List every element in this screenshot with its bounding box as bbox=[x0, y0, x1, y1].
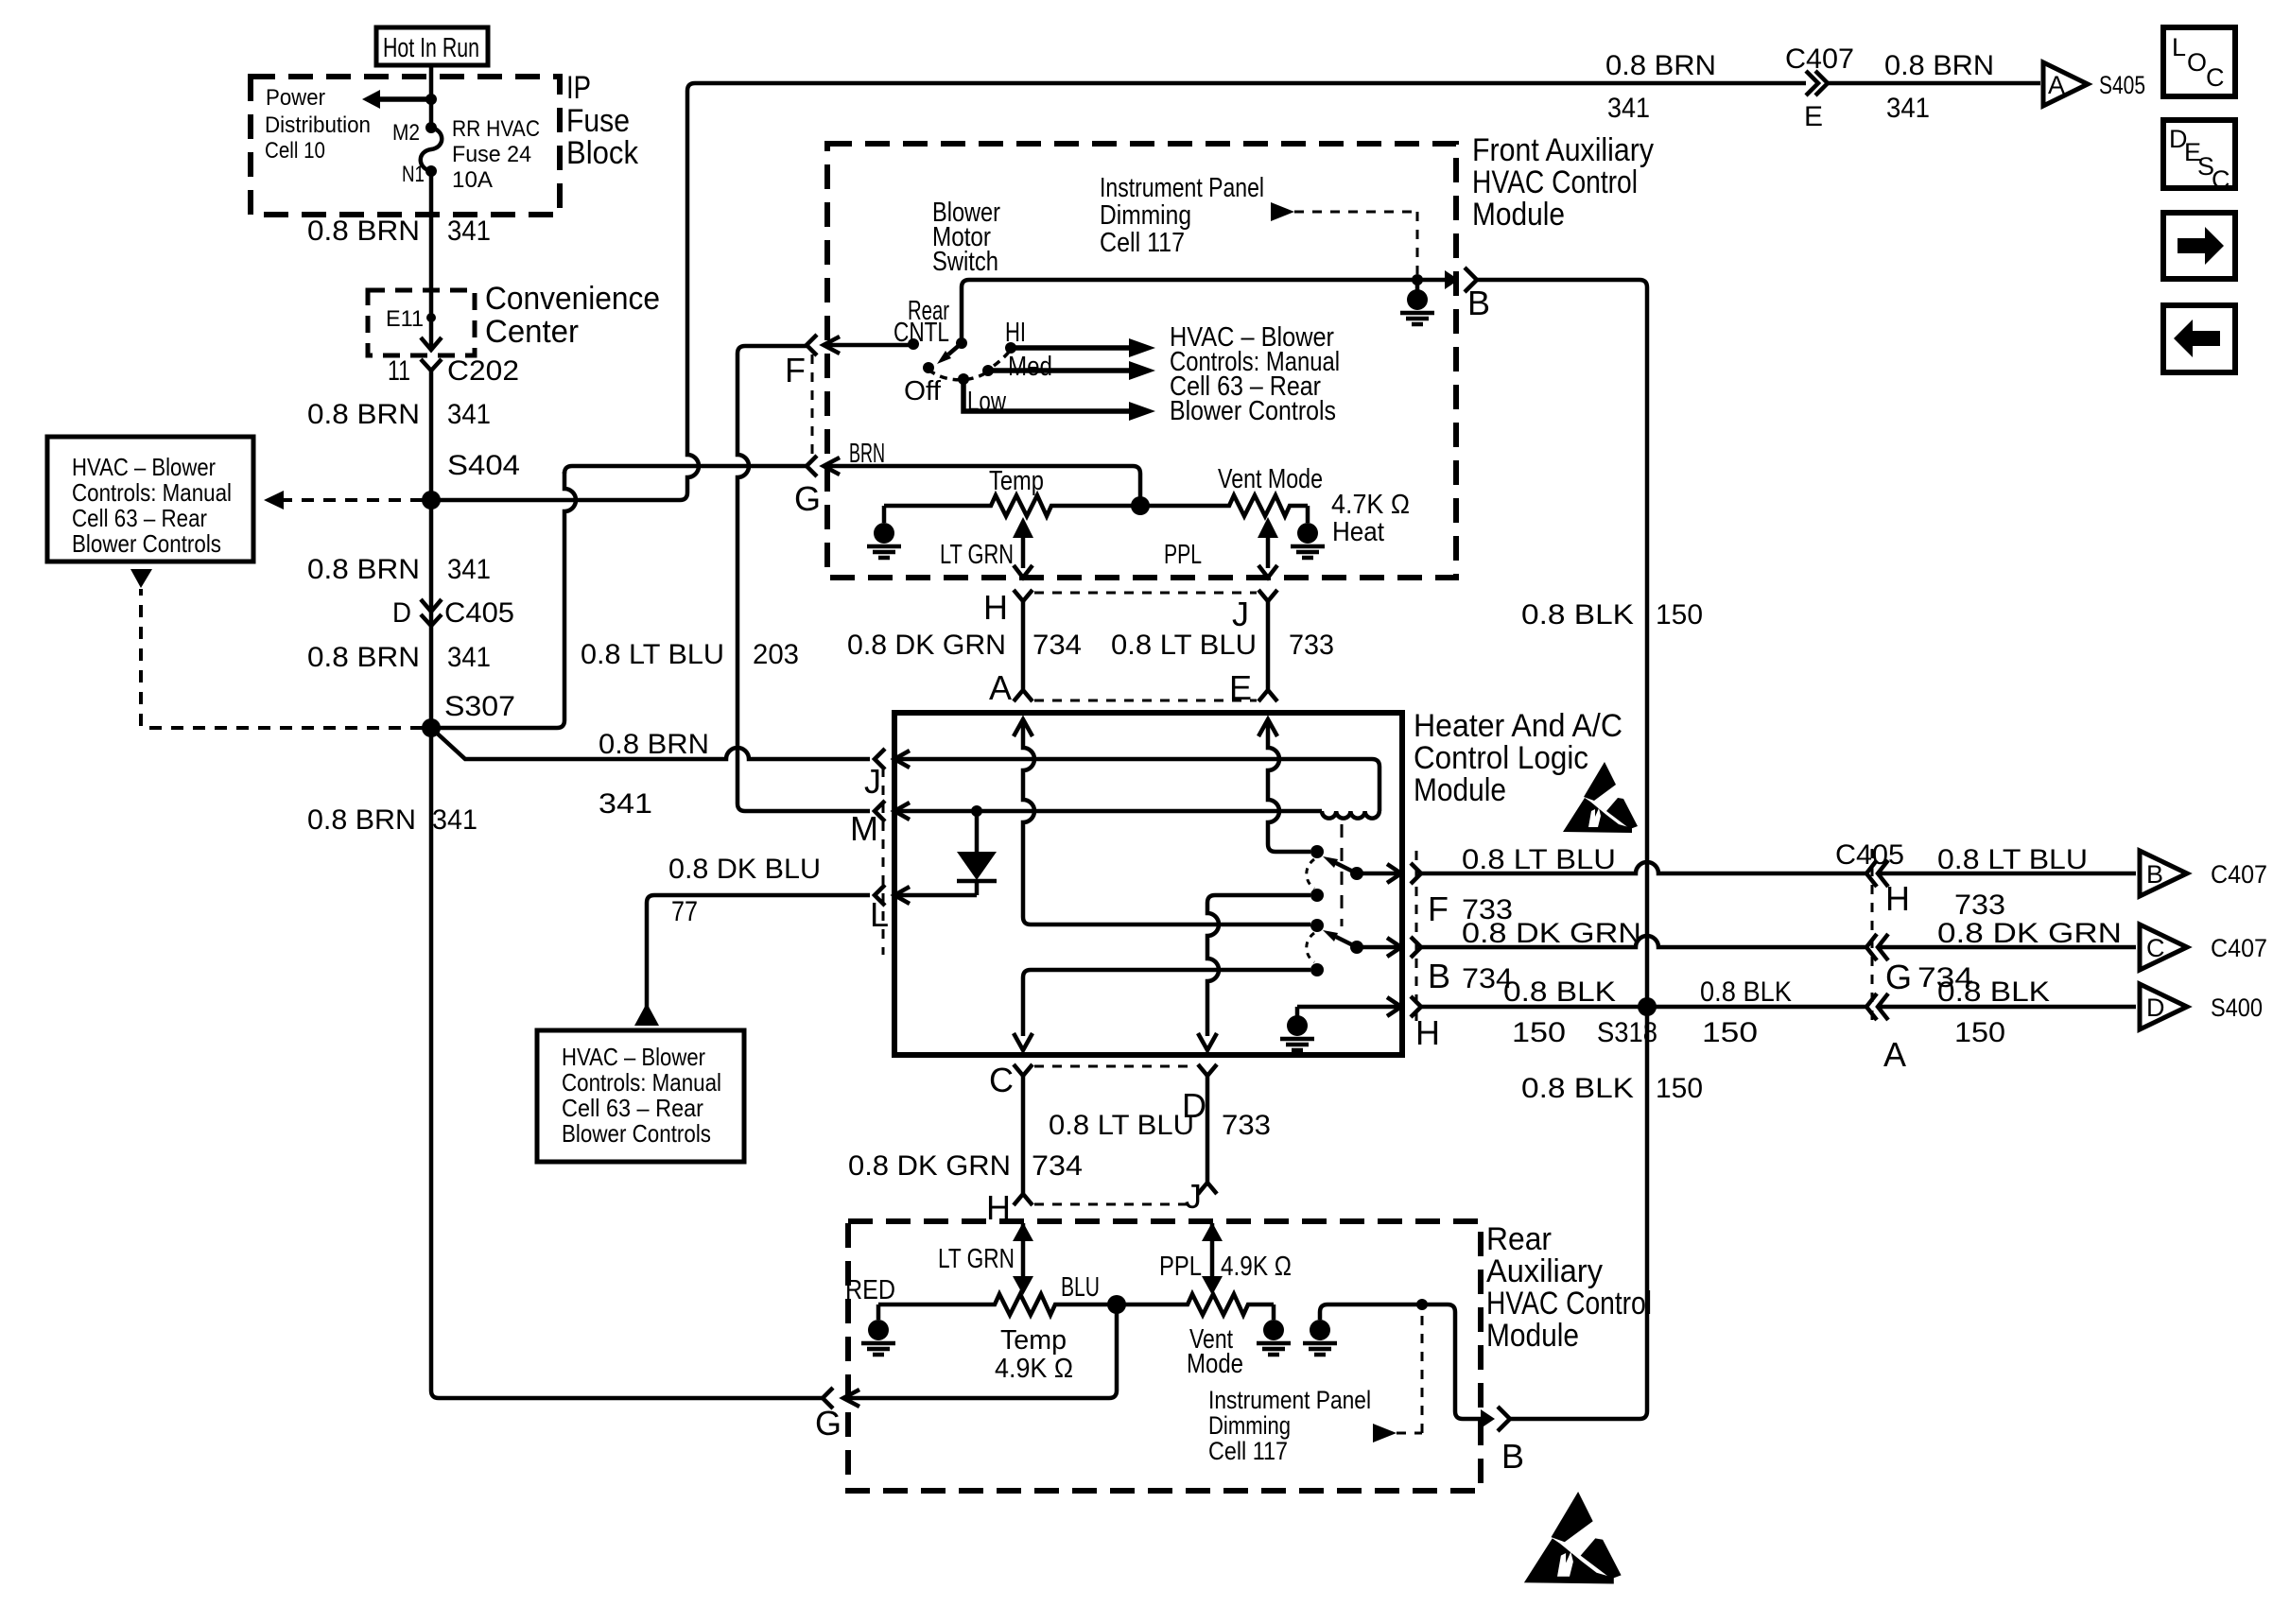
junction on M wire bbox=[971, 805, 982, 817]
Vent wiper to pin J bbox=[1258, 517, 1278, 538]
C405 connector dashed line bbox=[1871, 849, 1874, 1026]
svg-text:Controls: Manual: Controls: Manual bbox=[72, 478, 232, 507]
svg-text:0.8 BRN: 0.8 BRN bbox=[307, 216, 420, 247]
svg-text:S405: S405 bbox=[2099, 71, 2145, 99]
svg-text:IP: IP bbox=[566, 70, 591, 106]
svg-text:150: 150 bbox=[1656, 1073, 1703, 1104]
connector C405 pin D (in-line on main wire) bbox=[421, 599, 442, 612]
switch arm (pointing to Off) bbox=[948, 343, 962, 354]
svg-text:0.8 BLK: 0.8 BLK bbox=[1521, 599, 1634, 631]
connector C407 pin C (triangle) bbox=[2140, 924, 2187, 970]
svg-text:M2: M2 bbox=[392, 120, 420, 146]
svg-text:Cell 63 – Rear: Cell 63 – Rear bbox=[562, 1094, 703, 1122]
svg-text:Center: Center bbox=[485, 314, 579, 350]
svg-text:734: 734 bbox=[1032, 630, 1082, 661]
lower relay switch bbox=[1310, 919, 1324, 932]
svg-text:RR HVAC: RR HVAC bbox=[452, 116, 540, 142]
svg-text:4.7K Ω: 4.7K Ω bbox=[1331, 490, 1410, 520]
svg-text:C407: C407 bbox=[2211, 860, 2267, 889]
in-line connector dashed outline bbox=[1034, 593, 1257, 700]
connector C407 pin E (top rail) bbox=[1806, 71, 1818, 95]
wire F to blower motor switch Rear CNTL contact bbox=[824, 343, 913, 348]
Heater And A/C Control Logic Module box bbox=[894, 713, 1402, 1055]
svg-text:4.9K Ω: 4.9K Ω bbox=[1221, 1252, 1292, 1282]
wire S404 to front module pin G bbox=[564, 466, 807, 474]
wire Low to cell 63 reference (arrow) bbox=[963, 379, 1133, 411]
svg-text:341: 341 bbox=[447, 399, 491, 430]
Front Auxiliary HVAC Control Module box bbox=[827, 144, 1456, 578]
svg-text:Module: Module bbox=[1472, 197, 1565, 233]
svg-text:Mode: Mode bbox=[1187, 1349, 1243, 1379]
svg-text:0.8 DK GRN: 0.8 DK GRN bbox=[1462, 918, 1641, 949]
svg-text:Blower Controls: Blower Controls bbox=[72, 529, 221, 558]
splice symbol S405 (triangle A) bbox=[2043, 62, 2088, 106]
svg-text:0.8 BRN: 0.8 BRN bbox=[307, 642, 420, 673]
svg-text:Heater And A/C: Heater And A/C bbox=[1414, 708, 1622, 744]
svg-text:150: 150 bbox=[1512, 1017, 1566, 1048]
node E11 bbox=[426, 313, 436, 322]
svg-text:S400: S400 bbox=[2211, 993, 2263, 1022]
C405 pin A bbox=[1866, 993, 1877, 1020]
svg-text:Module: Module bbox=[1486, 1318, 1579, 1354]
C405 pin H bbox=[1866, 860, 1877, 887]
svg-text:341: 341 bbox=[447, 642, 491, 673]
node on B wire bbox=[1412, 274, 1423, 285]
svg-text:Blower Controls: Blower Controls bbox=[1170, 396, 1336, 426]
pin J (heater module) bbox=[875, 749, 885, 769]
svg-text:Switch: Switch bbox=[932, 247, 998, 277]
Rear Auxiliary HVAC Control Module box bbox=[848, 1221, 1481, 1491]
svg-text:0.8 DK GRN: 0.8 DK GRN bbox=[847, 630, 1006, 661]
svg-text:B: B bbox=[2146, 860, 2163, 889]
wire S404 right then up to top rail (hops over G wire) bbox=[431, 83, 1806, 500]
svg-text:Auxiliary: Auxiliary bbox=[1486, 1253, 1603, 1289]
ESD warning symbol bbox=[1563, 762, 1638, 833]
svg-text:Hot In Run: Hot In Run bbox=[383, 33, 479, 63]
svg-text:M: M bbox=[850, 809, 878, 848]
bottom contact (from pin C) bbox=[1310, 963, 1324, 976]
svg-text:S404: S404 bbox=[447, 450, 520, 481]
pin L bbox=[875, 885, 885, 906]
contact Low bbox=[958, 373, 969, 385]
svg-text:F: F bbox=[785, 351, 806, 389]
back arrow box bbox=[2163, 305, 2235, 372]
svg-text:D: D bbox=[2146, 993, 2165, 1022]
wire Med to cell 63 reference (arrow) bbox=[988, 368, 1133, 373]
svg-text:J: J bbox=[1185, 1177, 1202, 1216]
svg-text:Instrument Panel: Instrument Panel bbox=[1208, 1386, 1371, 1414]
svg-text:0.8 BRN: 0.8 BRN bbox=[307, 804, 416, 836]
Temp wiper to pin H bbox=[1013, 517, 1033, 538]
svg-text:Fuse: Fuse bbox=[566, 103, 630, 139]
svg-text:C202: C202 bbox=[447, 355, 519, 387]
connector halves C (left) bbox=[1014, 1064, 1032, 1076]
svg-text:77: 77 bbox=[671, 896, 698, 927]
svg-text:341: 341 bbox=[599, 788, 652, 820]
pin F bbox=[807, 335, 817, 355]
pin C wire (bottom connector to bottom contact) bbox=[1014, 970, 1310, 1050]
relay coil bbox=[1322, 811, 1379, 819]
svg-text:0.8 LT BLU: 0.8 LT BLU bbox=[1111, 630, 1257, 661]
svg-text:Heat: Heat bbox=[1332, 517, 1384, 547]
svg-text:Cell 117: Cell 117 bbox=[1100, 228, 1185, 258]
HVAC Blower Controls reference box (bottom) bbox=[537, 1030, 744, 1162]
svg-text:10A: 10A bbox=[452, 167, 493, 193]
svg-text:E: E bbox=[1804, 101, 1823, 132]
pin H (heater module) bbox=[1387, 997, 1401, 1016]
svg-text:HVAC – Blower: HVAC – Blower bbox=[72, 453, 216, 481]
svg-text:C: C bbox=[989, 1061, 1014, 1099]
svg-text:150: 150 bbox=[1954, 1017, 2005, 1048]
pin G bbox=[807, 456, 817, 476]
svg-text:C407: C407 bbox=[1785, 43, 1854, 75]
reference arrow (up triangle) bbox=[634, 1003, 659, 1026]
svg-text:Front Auxiliary: Front Auxiliary bbox=[1472, 132, 1654, 168]
wire rear B to S318 rail bbox=[1510, 1015, 1647, 1419]
wire HI to cell 63 reference (arrow) bbox=[1011, 345, 1133, 351]
IP Fuse Block dashed box bbox=[251, 77, 560, 215]
svg-text:341: 341 bbox=[447, 216, 491, 247]
svg-text:BRN: BRN bbox=[849, 439, 885, 469]
svg-text:0.8 BLK: 0.8 BLK bbox=[1503, 976, 1616, 1008]
svg-text:C405: C405 bbox=[444, 597, 514, 629]
svg-text:Distribution: Distribution bbox=[265, 112, 371, 138]
svg-text:Cell 63 – Rear: Cell 63 – Rear bbox=[72, 504, 207, 532]
splice symbol S400 (triangle D) bbox=[2140, 984, 2187, 1029]
svg-text:S307: S307 bbox=[444, 691, 515, 722]
C405 pin G bbox=[1866, 934, 1877, 960]
ground (illumination return, rear) bbox=[1310, 1320, 1330, 1340]
diode CR (to pin L) bbox=[975, 811, 980, 852]
svg-text:4.9K Ω: 4.9K Ω bbox=[995, 1354, 1073, 1384]
ground (pin H return) bbox=[1295, 1007, 1300, 1016]
dashed dimming feed with arrow (rear) bbox=[1373, 1424, 1397, 1443]
forward arrow box bbox=[2163, 213, 2235, 279]
svg-text:341: 341 bbox=[432, 804, 477, 836]
wire front B down to S318 bbox=[1640, 280, 1647, 998]
svg-text:PPL: PPL bbox=[1159, 1252, 1202, 1282]
middle contact (from pin D) bbox=[1310, 889, 1324, 902]
svg-text:PPL: PPL bbox=[1164, 540, 1202, 570]
svg-text:HVAC – Blower: HVAC – Blower bbox=[562, 1043, 705, 1071]
svg-text:Dimming: Dimming bbox=[1100, 200, 1191, 231]
svg-text:H: H bbox=[1885, 879, 1910, 918]
pin A wire (down, bumps over J/M wires, to lower relay contact) bbox=[1014, 719, 1310, 924]
svg-text:Power: Power bbox=[266, 85, 325, 111]
svg-text:Med: Med bbox=[1008, 352, 1052, 382]
svg-text:0.8 BLK: 0.8 BLK bbox=[1700, 976, 1792, 1008]
svg-text:Vent Mode: Vent Mode bbox=[1218, 464, 1323, 494]
svg-text:0.8 LT BLU: 0.8 LT BLU bbox=[1462, 844, 1616, 875]
svg-text:150: 150 bbox=[1702, 1017, 1758, 1048]
connector C407 pin B (triangle) bbox=[2140, 851, 2187, 896]
svg-text:11: 11 bbox=[388, 355, 410, 387]
connector halves H/A (left) bbox=[1014, 590, 1032, 601]
svg-text:0.8 LT BLU: 0.8 LT BLU bbox=[1937, 844, 2088, 875]
wire 0.8 DK BLU 77 from reference to pin L bbox=[647, 895, 870, 1026]
ESD warning symbol (lower) bbox=[1524, 1492, 1622, 1584]
svg-text:LT GRN: LT GRN bbox=[940, 540, 1014, 570]
rear G riser bbox=[844, 1304, 1117, 1398]
svg-text:N1: N1 bbox=[402, 162, 425, 187]
svg-text:0.8 BRN: 0.8 BRN bbox=[1605, 50, 1716, 81]
svg-text:203: 203 bbox=[753, 639, 799, 670]
fuse 24 RR HVAC 10A (squiggle between M2 and N1) bbox=[425, 122, 437, 133]
svg-text:0.8 LT BLU: 0.8 LT BLU bbox=[1049, 1110, 1194, 1141]
detent dashed arc Off-Low-Med-HI bbox=[928, 351, 1010, 380]
svg-text:Convenience: Convenience bbox=[485, 281, 660, 317]
svg-text:341: 341 bbox=[447, 554, 491, 585]
svg-text:H: H bbox=[1415, 1013, 1440, 1052]
svg-text:Cell 10: Cell 10 bbox=[265, 138, 325, 164]
contact Off bbox=[923, 362, 934, 373]
splice S318 bbox=[1638, 997, 1657, 1016]
svg-text:0.8 BRN: 0.8 BRN bbox=[307, 399, 420, 430]
svg-text:L: L bbox=[870, 895, 889, 934]
svg-text:Off: Off bbox=[904, 376, 942, 406]
junction of temp/vent wires bbox=[1131, 496, 1150, 515]
S307 riser to G wire corner (hops over S404 wire) bbox=[437, 472, 576, 728]
svg-text:341: 341 bbox=[1886, 93, 1930, 124]
svg-text:Dimming: Dimming bbox=[1208, 1411, 1291, 1440]
svg-text:A: A bbox=[1883, 1035, 1906, 1074]
node (dimming tap) bbox=[1416, 1299, 1428, 1310]
svg-text:HVAC Control: HVAC Control bbox=[1472, 164, 1638, 200]
svg-text:Rear: Rear bbox=[1486, 1221, 1552, 1257]
svg-text:0.8 BRN: 0.8 BRN bbox=[307, 554, 420, 585]
pin E wire (down, bumps over J/M wires, to upper relay contact) bbox=[1258, 719, 1310, 852]
dashed arrow from S404 to HVAC-Blower Controls reference bbox=[282, 498, 423, 502]
svg-text:341: 341 bbox=[1607, 93, 1650, 124]
svg-text:733: 733 bbox=[1954, 890, 2005, 921]
wire ground to pin H bbox=[1297, 1005, 1398, 1010]
svg-text:A: A bbox=[989, 668, 1012, 707]
wire S307 down left rail to rear module G bbox=[431, 728, 822, 1398]
wire S307 to pin J (hops the LT BLU 203 vertical) bbox=[431, 728, 870, 759]
Hot In Run box bbox=[376, 27, 488, 65]
wire heater B to C405 (hops front-B rail) bbox=[1421, 936, 1867, 947]
pin B (heater module) bbox=[1357, 945, 1398, 950]
in-line connector dashed outline bbox=[1034, 1066, 1196, 1204]
heater module right-side connector line bbox=[1415, 851, 1418, 1021]
svg-text:HVAC Control: HVAC Control bbox=[1486, 1286, 1652, 1322]
wire Temp/Vent supply from pin G bbox=[824, 466, 1140, 506]
svg-text:A: A bbox=[2048, 71, 2065, 99]
svg-text:D: D bbox=[392, 597, 411, 629]
svg-text:0.8 DK GRN: 0.8 DK GRN bbox=[848, 1150, 1011, 1182]
connector C202 pin 11 bbox=[421, 359, 442, 371]
svg-text:Fuse 24: Fuse 24 bbox=[452, 142, 531, 167]
pin B (rear module) bbox=[1481, 1409, 1495, 1428]
svg-text:B: B bbox=[1467, 284, 1490, 322]
svg-text:H: H bbox=[983, 588, 1008, 627]
svg-text:150: 150 bbox=[1656, 599, 1703, 631]
pin F (heater module) bbox=[1357, 872, 1398, 876]
svg-text:Module: Module bbox=[1414, 772, 1506, 808]
dashed dimming feed with arrow bbox=[1271, 202, 1294, 221]
svg-text:F: F bbox=[1428, 890, 1449, 928]
pin B (front module, right side) bbox=[1445, 270, 1459, 289]
svg-text:Controls: Manual: Controls: Manual bbox=[562, 1068, 721, 1097]
svg-text:J: J bbox=[1232, 595, 1249, 633]
svg-text:E11: E11 bbox=[386, 306, 424, 332]
svg-text:C: C bbox=[2146, 934, 2165, 962]
ground (right of Vent Mode) bbox=[1306, 506, 1310, 523]
wire heater F to C405 (hops front-B rail) bbox=[1421, 862, 1867, 873]
svg-text:G: G bbox=[794, 479, 821, 518]
svg-text:J: J bbox=[864, 762, 881, 801]
svg-text:0.8 BLK: 0.8 BLK bbox=[1937, 976, 2050, 1008]
svg-text:Block: Block bbox=[566, 135, 639, 171]
wire fuse to convenience center bbox=[429, 171, 434, 318]
node: feed to Power Distribution cell (arrow left) bbox=[425, 94, 437, 105]
connector line for pins J,M,L bbox=[882, 768, 885, 955]
wire heater H to S318 to C405 bbox=[1421, 1005, 1867, 1010]
svg-text:Control Logic: Control Logic bbox=[1414, 740, 1588, 776]
svg-text:Temp: Temp bbox=[1000, 1325, 1067, 1356]
relay actuating dashed link bbox=[1341, 824, 1344, 926]
svg-text:734: 734 bbox=[1032, 1150, 1083, 1182]
wire illumination to pin B bbox=[1320, 1304, 1481, 1419]
LOC box bbox=[2163, 27, 2235, 96]
svg-text:C: C bbox=[2212, 165, 2230, 194]
contact Med bbox=[982, 365, 994, 376]
svg-text:S318: S318 bbox=[1597, 1017, 1657, 1048]
connector line for pins F,G bbox=[811, 354, 814, 458]
wire S404 down to S307 bbox=[429, 500, 434, 728]
wire diode to pin L bbox=[893, 893, 977, 898]
svg-text:HI: HI bbox=[1005, 318, 1026, 348]
svg-text:0.8 DK GRN: 0.8 DK GRN bbox=[1937, 918, 2122, 949]
pin J wire (PPL to rear Vent wiper) bbox=[1210, 1223, 1215, 1278]
wire F out of module, down to heater module pin M bbox=[737, 346, 870, 811]
svg-text:B: B bbox=[1428, 957, 1450, 995]
pin D wire (bottom connector to middle contact, bumps over A/C horizontals) bbox=[1198, 895, 1310, 1050]
svg-text:G: G bbox=[1885, 958, 1912, 996]
svg-text:Blower Controls: Blower Controls bbox=[562, 1119, 711, 1148]
upper relay switch bbox=[1310, 845, 1324, 858]
svg-text:0.8 LT BLU: 0.8 LT BLU bbox=[581, 639, 724, 670]
Convenience Center box bbox=[368, 290, 475, 355]
ground (right of rear Vent) bbox=[1272, 1304, 1276, 1320]
svg-text:0.8 BRN: 0.8 BRN bbox=[599, 729, 709, 760]
junction BLU node bbox=[1107, 1295, 1126, 1314]
ground (left of rear Temp) bbox=[876, 1304, 881, 1320]
svg-text:0.8 BRN: 0.8 BRN bbox=[1884, 50, 1994, 81]
svg-text:L: L bbox=[2172, 33, 2186, 61]
switch pivot bbox=[956, 337, 967, 349]
svg-text:B: B bbox=[1501, 1437, 1524, 1476]
pin G (rear module) bbox=[823, 1388, 833, 1408]
wire M inside module to relay coil bbox=[893, 809, 1322, 814]
pin H wire (LT GRN to rear Temp wiper) bbox=[1021, 1223, 1026, 1278]
svg-text:Cell 117: Cell 117 bbox=[1208, 1437, 1288, 1465]
contact HI bbox=[1005, 342, 1016, 354]
svg-text:0.8 DK BLU: 0.8 DK BLU bbox=[668, 854, 821, 885]
svg-text:C: C bbox=[2206, 63, 2225, 92]
svg-text:Instrument Panel: Instrument Panel bbox=[1100, 173, 1264, 203]
ground (illumination return) bbox=[1415, 280, 1420, 290]
connector halves D (right) bbox=[1198, 1064, 1217, 1076]
HVAC Blower Controls reference box (left) bbox=[47, 437, 253, 561]
pin M bbox=[875, 801, 885, 821]
svg-text:733: 733 bbox=[1222, 1110, 1271, 1141]
svg-text:RED: RED bbox=[845, 1275, 895, 1305]
svg-text:733: 733 bbox=[1289, 630, 1334, 661]
svg-text:LT GRN: LT GRN bbox=[938, 1244, 1015, 1274]
contact Rear CNTL bbox=[908, 338, 919, 350]
wire with exit arrow bbox=[429, 318, 434, 348]
svg-text:G: G bbox=[815, 1404, 842, 1443]
connector halves J/E (right) bbox=[1258, 590, 1277, 601]
svg-text:CNTL: CNTL bbox=[894, 318, 949, 348]
wire Hot In Run down into fuse block bbox=[429, 65, 434, 128]
ground (left of Temp) bbox=[882, 506, 887, 523]
svg-text:C407: C407 bbox=[2211, 934, 2267, 962]
svg-text:BLU: BLU bbox=[1061, 1272, 1100, 1303]
switch riser to B feed wire bbox=[962, 280, 1445, 343]
svg-text:0.8 BLK: 0.8 BLK bbox=[1521, 1073, 1634, 1104]
dashed branch from S307 to reference arrow (lower-left) bbox=[141, 726, 423, 730]
wire J inside module to relay coil bbox=[893, 759, 1379, 811]
svg-text:O: O bbox=[2187, 48, 2207, 77]
DESC box bbox=[2163, 120, 2235, 188]
